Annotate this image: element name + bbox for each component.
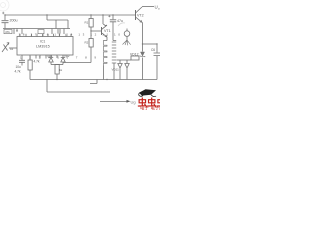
- svg-text:1k: 1k: [10, 47, 14, 51]
- svg-text:1k: 1k: [59, 68, 63, 72]
- svg-text:电子: 电子: [140, 105, 149, 110]
- svg-text:47u: 47u: [117, 19, 123, 23]
- svg-text:Ug: Ug: [131, 99, 136, 104]
- svg-text:R2: R2: [85, 41, 89, 45]
- svg-text:VD12: VD12: [130, 53, 139, 57]
- svg-text:电子网: 电子网: [151, 105, 161, 110]
- svg-text:1 2 3 4 5 6 7 8 9: 1 2 3 4 5 6 7 8 9: [20, 56, 99, 60]
- svg-text:200u: 200u: [10, 19, 18, 23]
- svg-text:18 17 16 15 14 13 12 11 10: 18 17 16 15 14 13 12 11 10: [19, 32, 123, 36]
- svg-text:R1: R1: [85, 21, 89, 25]
- svg-text:LM3915: LM3915: [36, 45, 50, 49]
- svg-text:C6: C6: [151, 48, 155, 52]
- svg-text:VT2: VT2: [137, 14, 144, 18]
- svg-text:VD11: VD11: [112, 68, 120, 72]
- svg-text:IC1: IC1: [40, 40, 45, 44]
- svg-text:47k: 47k: [5, 30, 10, 34]
- svg-text:10u: 10u: [16, 65, 22, 69]
- svg-text:4.7k: 4.7k: [34, 60, 40, 64]
- svg-text:4.7k: 4.7k: [15, 70, 21, 74]
